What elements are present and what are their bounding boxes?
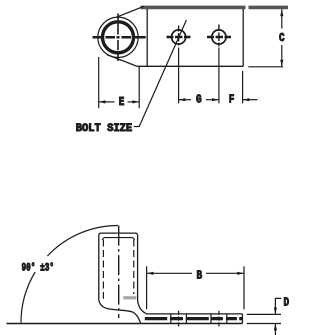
dimension E: [99, 100, 140, 103]
hole 1 hidden edge right (side): [185, 314, 187, 323]
svg-text:BOLT SIZE: BOLT SIZE: [76, 123, 133, 135]
bend inner curve: [138, 301, 147, 314]
bolt size leader: [134, 20, 187, 127]
dimension G: [179, 98, 219, 101]
svg-text:90° ±3°: 90° ±3°: [22, 262, 55, 274]
bore hidden line left: [102, 240, 104, 299]
barrel outline (side view): [99, 233, 138, 301]
E extension line left: [98, 57, 100, 108]
angle arc lower: [21, 272, 35, 323]
C top extension (thick gray): [249, 6, 289, 10]
hole 2 hidden edge left (side): [210, 314, 212, 323]
hole 2 hidden edge right (side): [226, 314, 228, 323]
hole 1 hidden edge left (side): [170, 314, 172, 323]
svg-text:D: D: [283, 297, 289, 310]
barrel mouth inner line: [102, 238, 134, 240]
tongue bottom / angle baseline: [7, 323, 243, 325]
barrel bore ring (thick): [103, 22, 134, 53]
flare tangent upper: [117, 6, 144, 17]
pad outline (top view): [137, 9, 243, 66]
hole 2 extension line: [218, 48, 220, 104]
bore hidden line right: [133, 240, 135, 295]
flare tangent lower: [107, 55, 137, 67]
B extension line right: [243, 266, 245, 309]
hole 1 centerline horizontal: [167, 36, 191, 39]
tongue end edge: [241, 314, 243, 324]
svg-text:B: B: [196, 270, 202, 283]
hole 2 centerline (side): [218, 311, 220, 328]
tongue hidden mid band: [145, 317, 242, 320]
hole 1 extension line: [178, 48, 180, 104]
dimension B: [147, 272, 244, 275]
barrel outer circle (top view): [98, 17, 138, 57]
hole 1 centerline (side): [178, 311, 180, 328]
svg-text:F: F: [229, 94, 235, 107]
dimension F: [243, 98, 258, 101]
B extension line left: [146, 266, 148, 309]
D extension line top: [247, 313, 281, 315]
barrel centerline horizontal: [93, 36, 146, 39]
E extension line right: [138, 67, 140, 108]
dimension D leader: [274, 298, 282, 335]
hole 1: [172, 30, 186, 44]
gray seam mark: [123, 296, 136, 299]
hole 1 centerline vertical: [178, 26, 180, 46]
pad top edge (thick gray): [141, 6, 246, 10]
C bottom extension line: [248, 66, 283, 68]
svg-text:E: E: [119, 96, 125, 109]
hole 2 centerline vertical: [218, 25, 220, 47]
D extension line bottom: [247, 323, 281, 325]
dimension C: [280, 9, 283, 66]
pad end extension line: [242, 71, 244, 103]
angle arc upper: [47, 226, 118, 257]
hole 2 centerline horizontal: [207, 36, 231, 39]
bend outer curve: [99, 300, 141, 324]
barrel centerline vertical: [117, 14, 119, 62]
hole 2: [212, 30, 226, 44]
svg-text:C: C: [279, 32, 285, 45]
barrel centerline (side view): [118, 226, 120, 318]
tongue top edge: [146, 313, 242, 315]
svg-text:G: G: [196, 94, 202, 107]
